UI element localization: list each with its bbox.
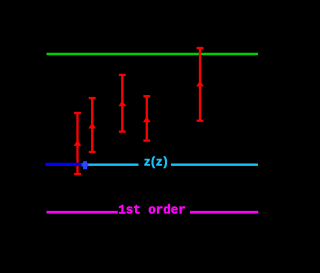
svg-text:1st order: 1st order bbox=[118, 204, 186, 218]
blue plus marker bbox=[82, 161, 89, 169]
error bar 4 (red, x=146.8) bbox=[143, 96, 150, 140]
blue thick segment bbox=[46, 163, 85, 166]
error bar 1 (red, x=77.5) bbox=[74, 113, 81, 174]
magenta line right segment bbox=[190, 211, 258, 214]
error bar 2 (red, x=92.2) bbox=[89, 98, 96, 152]
svg-text:z(z): z(z) bbox=[144, 156, 168, 169]
error bar 3 (red, x=122.3) bbox=[119, 75, 126, 132]
green horizontal line bbox=[47, 53, 259, 56]
magenta line left segment bbox=[47, 211, 118, 214]
cyan line right segment bbox=[171, 163, 258, 165]
cyan line left segment bbox=[87, 163, 138, 165]
error bar 5 (red, x=200) bbox=[197, 48, 204, 121]
